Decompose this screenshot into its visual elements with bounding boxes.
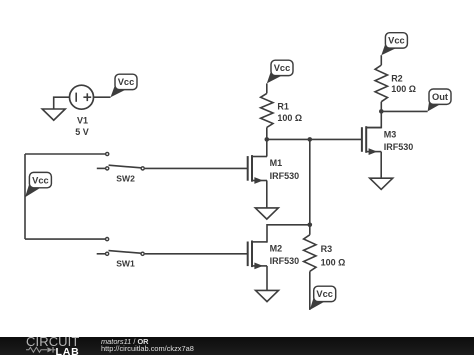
wire R2 to output node [380,102,382,112]
svg-text:R1: R1 [277,101,289,111]
svg-text:Vcc: Vcc [388,36,405,46]
node junction at R1/M1 drain [265,137,270,142]
switch SW2 [97,152,144,183]
svg-text:5 V: 5 V [75,127,89,137]
svg-text:M3: M3 [384,129,397,139]
ground (M2 source) [256,290,279,301]
wire M3 source [380,152,382,179]
transistor M1 (IRF530) [248,155,299,184]
svg-text:SW2: SW2 [116,173,135,183]
wire drain node to M3 gate [267,138,362,140]
net flag Vcc on left rail [25,182,41,198]
resistor R3 [304,235,316,272]
transistor M2 (IRF530) [248,241,299,270]
wire node to R3 [309,225,311,235]
svg-text:IRF530: IRF530 [270,171,300,181]
resistor R1 [261,93,273,127]
svg-text:LAB: LAB [56,346,80,356]
svg-text:Vcc: Vcc [32,175,49,185]
switch SW1 [97,238,145,269]
wire SW2 to M1 gate [145,167,248,169]
svg-text:Vcc: Vcc [118,77,135,87]
wire rail to SW1 throw [25,238,105,240]
svg-text:100 Ω: 100 Ω [277,113,302,123]
svg-text:Vcc: Vcc [316,289,333,299]
node junction at branch to M2 [308,137,313,142]
net flag Vcc at V1 [111,83,127,97]
wire Vcc to R2 [380,55,382,65]
svg-text:R2: R2 [391,74,403,84]
wire output node to Out flag [381,110,427,112]
wire M1 drain [266,139,268,156]
net flag Vcc at R1 [267,69,283,83]
voltage source V1 (5 V) [70,85,94,109]
ground (M3 source) [370,178,393,189]
svg-text:R3: R3 [321,244,333,254]
wire Vcc to R1 [266,83,268,93]
wire SW1 to M2 gate [145,253,248,255]
wire rail to SW2 throw [25,153,105,155]
svg-text:M2: M2 [270,244,283,254]
transistor M3 (IRF530) [362,126,413,155]
svg-text:100 Ω: 100 Ω [321,258,346,268]
wire left Vcc rail [24,154,26,239]
svg-text:V1: V1 [77,116,88,126]
svg-text:IRF530: IRF530 [384,142,414,152]
wire branch down to M2 drain node [309,139,311,224]
svg-text:Vcc: Vcc [274,63,291,73]
net flag Out [428,98,441,111]
node junction at M3 drain / output [379,109,384,114]
svg-text:IRF530: IRF530 [270,256,300,266]
net flag Vcc below R3 [310,295,325,310]
svg-text:M1: M1 [270,158,283,168]
net flag Vcc at R2 [381,42,397,55]
wire V1 positive lead [94,96,111,98]
wire R3 to Vcc flag [309,271,311,310]
ground (V1) [42,109,65,120]
wire M2 source [266,266,268,291]
wire M3 drain [366,111,381,127]
ground (M1 source) [255,208,278,219]
node junction at M2 drain / R3 [308,223,313,228]
wire V1 negative lead [54,97,70,109]
svg-text:Out: Out [432,92,448,102]
wire node to M2 drain [267,225,310,243]
svg-text:100 Ω: 100 Ω [391,84,416,94]
wire M1 source [266,181,268,208]
resistor R2 [375,65,387,102]
svg-text:SW1: SW1 [116,259,135,269]
wire R1 to node [266,127,268,139]
